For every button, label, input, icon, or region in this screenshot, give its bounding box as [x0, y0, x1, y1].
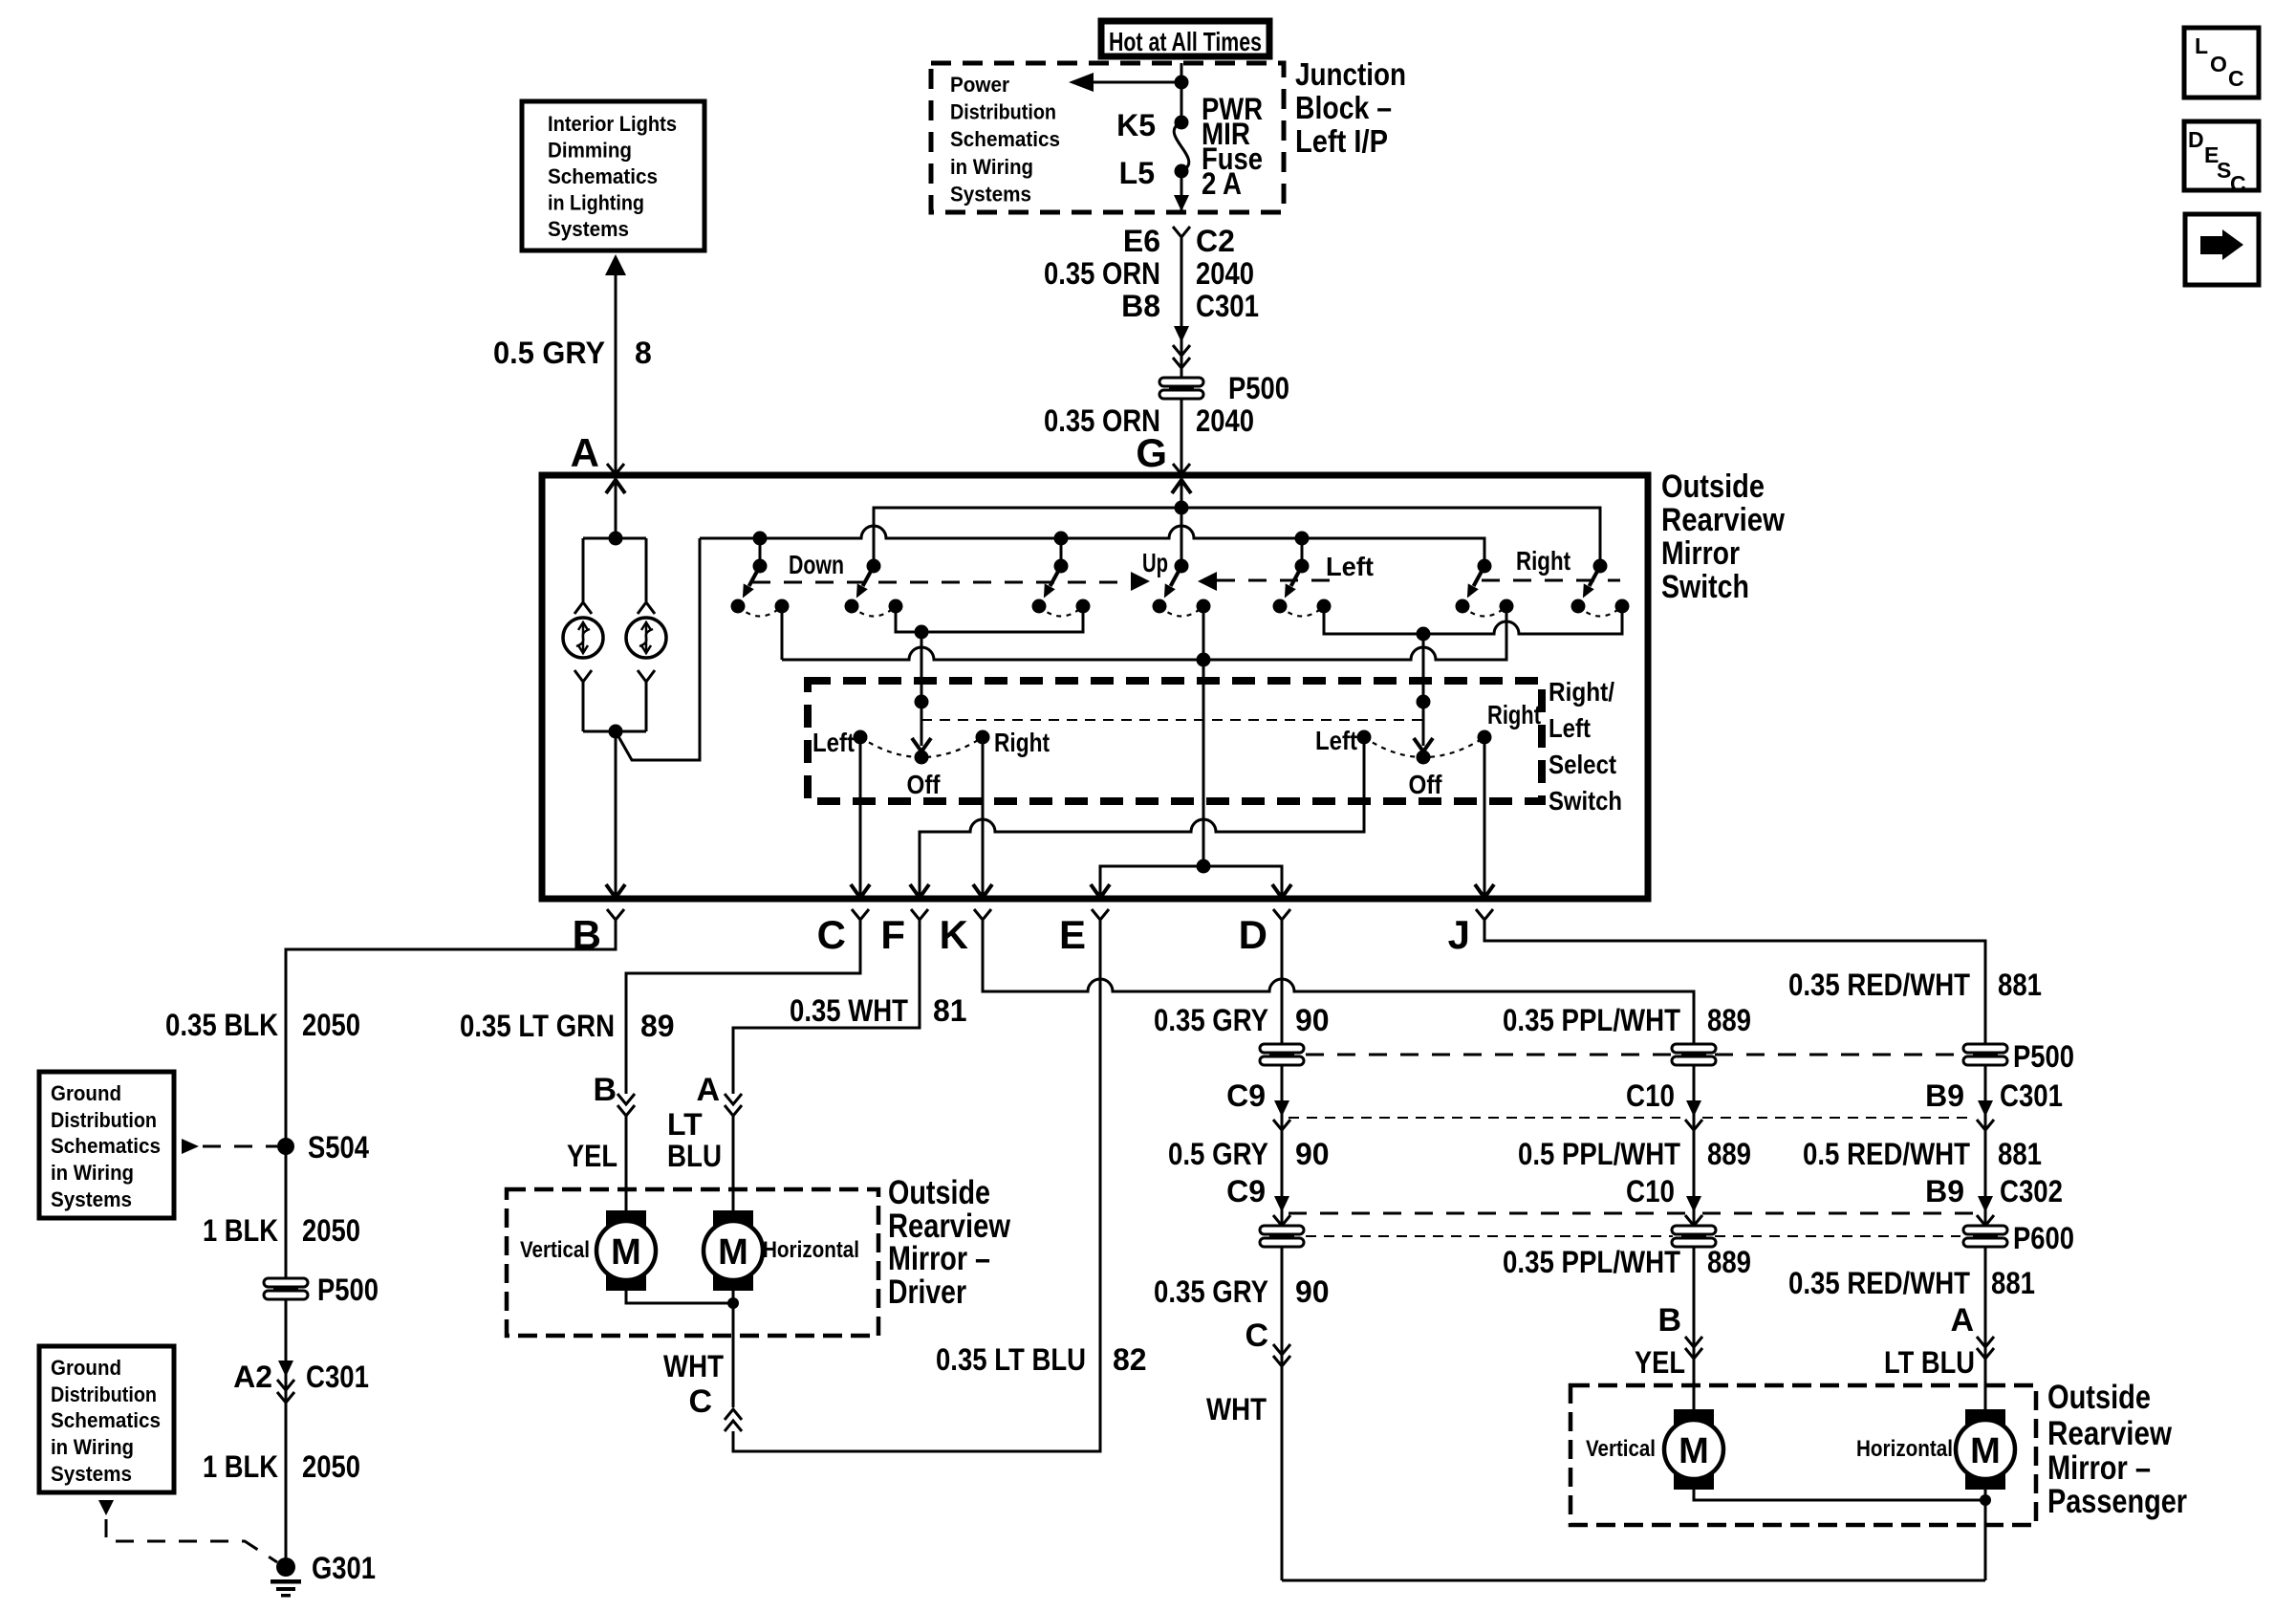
svg-text:Outside: Outside — [888, 1174, 990, 1211]
svg-text:C301: C301 — [306, 1360, 369, 1394]
connector P500 pass-through (left) — [264, 1278, 308, 1299]
svg-text:G: G — [1136, 430, 1167, 475]
svg-text:0.35 PPL/WHT: 0.35 PPL/WHT — [1503, 1245, 1680, 1279]
svg-text:C301: C301 — [2000, 1078, 2063, 1113]
svg-text:0.35 WHT: 0.35 WHT — [790, 993, 908, 1028]
terminal J — [1476, 909, 1493, 920]
wire feed into fuse — [1180, 63, 1183, 122]
svg-text:A2: A2 — [233, 1360, 272, 1394]
svg-text:A: A — [1950, 1302, 1974, 1339]
svg-text:YEL: YEL — [1635, 1345, 1685, 1380]
svg-text:Vertical: Vertical — [1586, 1436, 1656, 1462]
svg-text:Ground: Ground — [51, 1356, 121, 1380]
wire YEL — [625, 1116, 628, 1210]
svg-text:C: C — [2228, 66, 2244, 91]
svg-text:C: C — [2230, 171, 2246, 196]
svg-text:0.35 GRY: 0.35 GRY — [1154, 1003, 1268, 1037]
svg-text:S504: S504 — [308, 1130, 369, 1165]
svg-text:Hot at All Times: Hot at All Times — [1109, 27, 1262, 56]
label box "Interior Lights Dimming Schematics in Lighting Systems" — [522, 101, 704, 250]
svg-text:in Wiring: in Wiring — [51, 1161, 134, 1185]
svg-text:G301: G301 — [312, 1551, 376, 1585]
svg-text:8: 8 — [635, 336, 652, 370]
label box "Ground Distribution Schematics in Wiring Systems" (lower) — [39, 1346, 174, 1492]
svg-text:0.35 ORN: 0.35 ORN — [1044, 256, 1160, 291]
svg-text:90: 90 — [1295, 1137, 1330, 1171]
svg-text:Horizontal: Horizontal — [1856, 1436, 1953, 1462]
wire select L-left to terminal C — [859, 737, 862, 898]
svg-text:Up: Up — [1142, 548, 1168, 577]
wire pin G drop — [1180, 475, 1183, 566]
svg-text:0.35 RED/WHT: 0.35 RED/WHT — [1788, 968, 1970, 1002]
svg-text:Junction: Junction — [1295, 56, 1406, 92]
svg-text:0.35 LT GRN: 0.35 LT GRN — [460, 1009, 615, 1043]
svg-text:L: L — [2195, 33, 2208, 58]
wire bus 1 (upper feed rail) — [874, 508, 1600, 566]
outside rearview mirror passenger dashed box — [1570, 1385, 2036, 1525]
terminal arrows into box edge — [606, 884, 625, 898]
svg-text:C302: C302 — [2000, 1174, 2063, 1208]
motor M passenger horizontal — [1956, 1409, 2015, 1490]
wire YEL passenger — [1693, 1360, 1696, 1409]
Right/Left select switch dashed box — [808, 681, 1542, 801]
wire dashed to G301 — [98, 1500, 114, 1515]
svg-text:Schematics: Schematics — [950, 127, 1060, 151]
svg-text:Rearview: Rearview — [1661, 502, 1785, 538]
motor M driver horizontal — [704, 1210, 763, 1291]
svg-text:Left: Left — [1326, 552, 1374, 581]
svg-text:Right: Right — [1487, 700, 1541, 729]
svg-text:Driver: Driver — [888, 1274, 966, 1311]
svg-text:Down: Down — [789, 550, 844, 579]
wire 0.35 WHT 81 (terminal F to driver horizontal) — [733, 920, 920, 1094]
svg-text:89: 89 — [640, 1009, 675, 1043]
svg-text:0.5 PPL/WHT: 0.5 PPL/WHT — [1518, 1137, 1680, 1171]
svg-text:C301: C301 — [1196, 289, 1259, 323]
wire lamp branches — [582, 538, 585, 601]
svg-text:90: 90 — [1295, 1003, 1330, 1037]
svg-text:889: 889 — [1707, 1137, 1751, 1171]
svg-text:Mirror –: Mirror – — [888, 1240, 990, 1277]
wire 0.35 PPL/WHT 889 (terminal K east run) — [983, 920, 1694, 1044]
wire select common right — [1422, 634, 1425, 746]
svg-text:82: 82 — [1113, 1342, 1147, 1377]
svg-text:Right: Right — [994, 728, 1050, 757]
wire up-B contact drop to E/D — [1202, 606, 1205, 866]
svg-text:C: C — [817, 912, 846, 957]
wire fuse output — [1180, 171, 1183, 211]
wire select R-right to terminal J — [1484, 737, 1486, 898]
svg-text:B: B — [593, 1072, 617, 1108]
svg-text:1 BLK: 1 BLK — [203, 1449, 278, 1484]
svg-text:C: C — [688, 1383, 712, 1420]
svg-text:Dimming: Dimming — [548, 139, 632, 163]
select section B (Left/Off/Right) — [1357, 730, 1372, 745]
svg-text:Ground: Ground — [51, 1081, 121, 1105]
svg-text:2050: 2050 — [302, 1008, 360, 1042]
wire lamp rail top — [583, 537, 646, 540]
svg-text:2040: 2040 — [1196, 256, 1254, 291]
svg-text:Vertical: Vertical — [520, 1237, 590, 1263]
terminal E — [1092, 909, 1109, 920]
lamp L2 illumination — [626, 618, 666, 658]
wire LT BLU — [732, 1116, 735, 1210]
svg-text:WHT: WHT — [663, 1349, 724, 1383]
wire passenger motor common — [1694, 1490, 1985, 1500]
node E/D split — [1197, 860, 1211, 874]
svg-text:81: 81 — [933, 993, 967, 1028]
svg-text:Mirror –: Mirror – — [2047, 1449, 2151, 1487]
svg-text:0.5 GRY: 0.5 GRY — [1168, 1137, 1268, 1171]
wire 0.35 GRY 90 (terminal D down) — [1281, 920, 1284, 1580]
svg-text:881: 881 — [1998, 968, 2042, 1002]
terminal D — [1273, 909, 1290, 920]
wire dashed to S504 — [182, 1139, 199, 1154]
wire bus 4 right (horizontal motors select feed) — [1324, 606, 1622, 634]
svg-text:D: D — [1239, 912, 1267, 957]
svg-text:LT: LT — [667, 1107, 703, 1142]
svg-text:F: F — [880, 912, 905, 957]
node feed junction — [1175, 76, 1189, 90]
terminal F — [911, 909, 928, 920]
svg-text:B8: B8 — [1121, 289, 1160, 323]
svg-text:C2: C2 — [1196, 224, 1235, 258]
svg-text:E6: E6 — [1123, 224, 1160, 258]
svg-text:E: E — [1059, 912, 1086, 957]
wire bus 2 (lower feed rail) — [700, 526, 1484, 566]
svg-text:Distribution: Distribution — [950, 100, 1056, 124]
svg-text:B: B — [1657, 1302, 1681, 1339]
switch SW5 Left — [1295, 532, 1310, 546]
svg-text:0.35 PPL/WHT: 0.35 PPL/WHT — [1503, 1003, 1680, 1037]
svg-text:2 A: 2 A — [1202, 166, 1242, 201]
svg-text:A: A — [696, 1072, 720, 1108]
switch SW3 Up (driver) — [1054, 532, 1069, 546]
svg-text:YEL: YEL — [567, 1139, 617, 1173]
svg-text:K5: K5 — [1116, 108, 1156, 142]
svg-text:Outside: Outside — [2047, 1379, 2151, 1416]
switch SW4 Up (passenger) — [1175, 559, 1189, 574]
icon box right-arrow — [2185, 214, 2259, 285]
svg-text:in Wiring: in Wiring — [950, 155, 1033, 179]
wire 0.35 LT GRN 89 (terminal C to driver vertical) — [626, 920, 860, 1094]
terminal C — [852, 909, 869, 920]
svg-text:889: 889 — [1707, 1003, 1751, 1037]
mechanical link select — [921, 719, 1423, 721]
svg-text:Block –: Block – — [1295, 90, 1392, 125]
svg-text:0.5 RED/WHT: 0.5 RED/WHT — [1803, 1137, 1970, 1171]
svg-text:0.35 BLK: 0.35 BLK — [165, 1008, 278, 1042]
svg-text:Distribution: Distribution — [51, 1382, 157, 1406]
wire RED/WHT column — [1984, 1044, 1987, 1360]
svg-text:Select: Select — [1549, 750, 1616, 779]
svg-text:P500: P500 — [1228, 371, 1289, 405]
svg-text:C9: C9 — [1226, 1078, 1266, 1113]
wire to terminal D — [1203, 866, 1282, 898]
svg-text:2050: 2050 — [302, 1213, 360, 1248]
svg-text:1 BLK: 1 BLK — [203, 1213, 278, 1248]
svg-text:Systems: Systems — [51, 1187, 132, 1211]
svg-text:Switch: Switch — [1661, 569, 1749, 605]
svg-text:Schematics: Schematics — [51, 1134, 161, 1158]
select section A (Left/Off/Right) — [854, 730, 868, 745]
svg-text:0.35 LT BLU: 0.35 LT BLU — [936, 1342, 1086, 1377]
fuse F: PWR MIR Fuse 2A — [1175, 116, 1189, 130]
node A junction — [609, 532, 623, 546]
svg-text:in Lighting: in Lighting — [548, 191, 644, 215]
wire 0.5 GRY 8 — [605, 254, 626, 275]
outside rearview mirror driver dashed box — [507, 1189, 878, 1336]
node lamp common — [609, 725, 623, 739]
svg-text:0.35 GRY: 0.35 GRY — [1154, 1274, 1268, 1309]
wire 0.35 LT BLU 82 (terminal E to driver common) — [733, 920, 1100, 1451]
svg-text:90: 90 — [1295, 1274, 1330, 1309]
terminal B — [607, 909, 624, 920]
svg-text:Rearview: Rearview — [2047, 1415, 2173, 1452]
svg-text:B9: B9 — [1925, 1078, 1964, 1113]
svg-text:BLU: BLU — [667, 1139, 722, 1173]
wire B drop — [615, 731, 617, 898]
svg-text:2040: 2040 — [1196, 403, 1254, 438]
svg-text:WHT: WHT — [1206, 1392, 1267, 1426]
svg-text:Schematics: Schematics — [51, 1408, 161, 1432]
icon box LOC — [2184, 28, 2259, 98]
svg-text:Left: Left — [1549, 713, 1591, 743]
svg-text:Horizontal: Horizontal — [763, 1237, 859, 1263]
wire PPL/WHT column — [1693, 1044, 1696, 1360]
wire select common left — [921, 632, 923, 746]
svg-text:0.5 GRY: 0.5 GRY — [493, 336, 605, 370]
svg-text:Interior Lights: Interior Lights — [548, 112, 677, 136]
svg-text:Systems: Systems — [548, 217, 629, 241]
motor M driver vertical — [596, 1210, 656, 1291]
svg-text:Off: Off — [1409, 770, 1443, 799]
wire select L-right to terminal K — [982, 737, 985, 898]
wire riser to dimmer feed — [616, 538, 700, 760]
connector P500 row — [1306, 1054, 1673, 1056]
svg-text:2050: 2050 — [302, 1449, 360, 1484]
mechanical link dashed — [752, 581, 1128, 584]
ground G301 — [276, 1557, 295, 1577]
wire bus 3 (commons return) — [782, 606, 1506, 660]
icon box DESC — [2184, 121, 2259, 190]
wire select R-left to terminal F — [920, 737, 1364, 898]
svg-text:Left I/P: Left I/P — [1295, 123, 1388, 159]
svg-text:C10: C10 — [1626, 1174, 1675, 1208]
switch SW7 Right (passenger side sw) — [1593, 559, 1608, 574]
svg-text:889: 889 — [1707, 1245, 1751, 1279]
svg-text:D: D — [2188, 127, 2204, 152]
svg-text:Distribution: Distribution — [51, 1108, 157, 1132]
svg-text:O: O — [2210, 52, 2227, 76]
connector C301 arrows — [1174, 326, 1189, 342]
label box "Ground Distribution Schematics in Wiring Systems" (upper) — [39, 1072, 174, 1218]
svg-text:Right/: Right/ — [1549, 677, 1614, 707]
node bus3 tap — [1197, 653, 1211, 667]
svg-text:Switch: Switch — [1549, 786, 1622, 816]
svg-text:L5: L5 — [1119, 156, 1155, 190]
svg-text:Right: Right — [1516, 546, 1570, 576]
svg-text:P500: P500 — [317, 1273, 379, 1307]
switch SW2 Down (passenger) — [867, 559, 881, 574]
wire bus 4 left (vertical motors select feed) — [896, 606, 1083, 632]
svg-text:P500: P500 — [2013, 1039, 2074, 1074]
svg-text:in Wiring: in Wiring — [51, 1435, 134, 1459]
terminal K — [974, 909, 991, 920]
lamp L1 illumination — [563, 618, 603, 658]
label box "Hot at All Times" — [1101, 21, 1269, 56]
wire ORN 2040 to switch — [1173, 227, 1190, 237]
wire to terminal E — [1100, 866, 1203, 898]
svg-text:K: K — [940, 912, 968, 957]
svg-text:LT BLU: LT BLU — [1884, 1345, 1975, 1380]
svg-text:C10: C10 — [1626, 1078, 1675, 1113]
svg-text:C9: C9 — [1226, 1174, 1266, 1208]
svg-text:C: C — [1245, 1317, 1268, 1354]
svg-text:Schematics: Schematics — [548, 164, 658, 188]
svg-text:Left: Left — [1315, 726, 1357, 755]
svg-text:P600: P600 — [2013, 1221, 2074, 1255]
svg-text:881: 881 — [1991, 1266, 2035, 1300]
svg-text:Systems: Systems — [51, 1462, 132, 1486]
svg-text:A: A — [571, 430, 599, 475]
switch SW1 Down (driver) — [753, 532, 768, 546]
switch SW6 Right (driver side sw) — [1478, 559, 1492, 574]
svg-text:Mirror: Mirror — [1661, 535, 1740, 572]
wire LT BLU passenger — [1984, 1360, 1987, 1409]
wire WHT common return — [1282, 1579, 1985, 1582]
wire lamp bottoms — [574, 670, 592, 682]
connector P500 pass-through — [1159, 378, 1203, 399]
svg-text:J: J — [1448, 912, 1470, 957]
wire driver motor common — [626, 1291, 733, 1303]
wire down-A contact to bus3 — [781, 606, 784, 660]
svg-text:0.35 RED/WHT: 0.35 RED/WHT — [1788, 1266, 1970, 1300]
svg-text:Passenger: Passenger — [2047, 1483, 2187, 1520]
wire 0.35 BLK 2050 — [286, 920, 616, 1567]
junction block dashed box — [931, 63, 1284, 212]
svg-text:Power: Power — [950, 73, 1009, 97]
svg-text:Off: Off — [907, 770, 942, 799]
motor M passenger vertical — [1664, 1409, 1723, 1490]
node S504 splice — [277, 1138, 294, 1155]
svg-text:Systems: Systems — [950, 182, 1031, 206]
svg-text:Outside: Outside — [1661, 468, 1765, 505]
svg-text:B9: B9 — [1925, 1174, 1964, 1208]
wire 0.35 RED/WHT 881 (terminal J east run) — [1484, 920, 1985, 1044]
svg-text:881: 881 — [1998, 1137, 2042, 1171]
svg-text:Left: Left — [812, 728, 855, 757]
wire arrow to power distribution — [1090, 81, 1181, 84]
connector P600 row — [1306, 1235, 1673, 1237]
